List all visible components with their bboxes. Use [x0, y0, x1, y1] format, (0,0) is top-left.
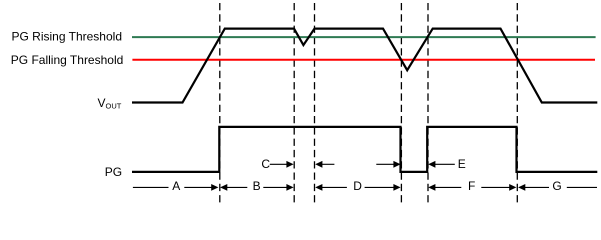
dashed marker line t6 (final crossing of falling threshold, PG goes low): [516, 3, 518, 203]
PG rising threshold line (green): [132, 36, 596, 38]
svg-text:PG Falling Threshold: PG Falling Threshold: [11, 53, 124, 67]
dashed marker line t5 (VOUT recrosses rising threshold, PG goes high): [427, 3, 429, 203]
dashed marker line t1 (VOUT crosses rising threshold, PG goes high): [219, 3, 221, 203]
svg-text:E: E: [458, 157, 466, 171]
interval E left-side arrow pointing right at t4: [376, 161, 400, 168]
svg-text:D: D: [353, 179, 362, 193]
svg-text:PG Rising Threshold: PG Rising Threshold: [12, 30, 123, 44]
interval D measure line between t3 and t4: [315, 184, 400, 191]
deglitch interval C arrow pointing right at t2: [270, 161, 294, 168]
interval E arrow pointing left at t5: [428, 161, 455, 168]
interval G measure line after t6: [518, 184, 597, 191]
svg-text:F: F: [468, 179, 475, 193]
interval B measure line between t1 and t2: [220, 184, 294, 191]
interval C right-side arrow pointing left at t3: [315, 161, 334, 168]
dashed marker line t2 (glitch C start, VOUT dips to rising threshold): [293, 3, 295, 203]
svg-text:G: G: [552, 179, 561, 193]
interval F measure line between t5 and t6: [428, 184, 516, 191]
interval A measure line with arrow at t1: [133, 184, 219, 191]
dashed marker line t4 (VOUT falls below falling threshold, PG goes low): [400, 3, 402, 203]
PG falling threshold line (red): [132, 59, 595, 61]
svg-text:B: B: [253, 179, 261, 193]
svg-text:PG: PG: [105, 165, 122, 179]
svg-text:A: A: [172, 179, 180, 193]
PG waveform: [132, 127, 597, 172]
dashed marker line t3 (glitch C end): [314, 3, 316, 203]
svg-text:C: C: [261, 157, 270, 171]
VOUT waveform: [132, 29, 597, 103]
